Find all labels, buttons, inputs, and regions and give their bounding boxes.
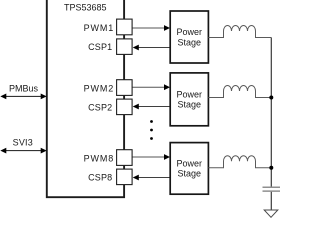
svg-text:Stage: Stage — [178, 169, 202, 179]
power stage 1 — [170, 11, 208, 63]
arrowhead into power stage 1 (PWM1) — [164, 25, 170, 31]
svg-text:CSP2: CSP2 — [88, 102, 112, 112]
wire CSP8 from power stage 3 — [138, 177, 170, 179]
power stage 2 — [170, 73, 208, 126]
svg-text:Power: Power — [177, 89, 203, 99]
arrowhead into CSP1 pin — [133, 45, 139, 51]
svg-text:PWM2: PWM2 — [84, 83, 115, 93]
SVI3 bidirectional arrow — [0, 137, 46, 153]
svg-text:Power: Power — [177, 27, 203, 37]
junction at phase 8 output — [269, 166, 273, 170]
pin PWM1 — [117, 19, 133, 35]
vertical ellipsis between phase 2 and phase 8 — [150, 120, 153, 140]
wire PWM2 to power stage 2 — [132, 86, 165, 88]
arrowhead into power stage 3 (PWM8) — [164, 154, 170, 160]
wire CSP1 from power stage 1 — [138, 47, 170, 49]
inductor L2 — [208, 86, 271, 98]
svg-text:PWM1: PWM1 — [84, 23, 115, 33]
controller IC U1 TPS53685 outline — [47, 0, 124, 197]
svg-text:TPS53685: TPS53685 — [64, 3, 107, 13]
arrowhead into CSP2 pin — [133, 104, 139, 110]
inductor L1 — [208, 26, 271, 38]
svg-text:Stage: Stage — [178, 100, 202, 110]
wire PWM8 to power stage 3 — [132, 156, 165, 158]
wire CSP2 from power stage 2 — [138, 106, 170, 108]
pin CSP2 — [117, 99, 133, 115]
output capacitor C1 — [263, 187, 281, 191]
svg-text:Power: Power — [177, 158, 203, 168]
inductor L3 — [208, 156, 271, 168]
PMBus bidirectional arrow — [0, 84, 46, 100]
svg-text:Stage: Stage — [178, 38, 202, 48]
wire PWM1 to power stage 1 — [132, 27, 165, 29]
pin PWM2 — [117, 80, 133, 96]
arrowhead into power stage 2 (PWM2) — [164, 84, 170, 90]
svg-text:CSP1: CSP1 — [88, 42, 112, 52]
power stage 3 — [170, 143, 208, 195]
pin PWM8 — [117, 150, 133, 166]
pin CSP1 — [117, 39, 133, 55]
ground — [264, 210, 278, 217]
junction at phase 2 output — [269, 96, 273, 100]
svg-text:PWM8: PWM8 — [84, 153, 115, 163]
output bus VOUT — [270, 38, 272, 187]
wire capacitor to ground — [270, 192, 272, 210]
svg-text:SVI3: SVI3 — [13, 137, 33, 147]
arrowhead into CSP8 pin — [133, 175, 139, 181]
svg-text:CSP8: CSP8 — [88, 172, 112, 182]
svg-text:PMBus: PMBus — [9, 84, 39, 94]
pin CSP8 — [117, 169, 133, 185]
